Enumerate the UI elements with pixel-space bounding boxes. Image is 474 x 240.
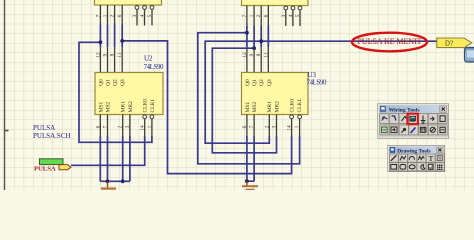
wire net QC3 to MR1 and PULSA KE MENIT port <box>205 41 437 143</box>
svg-text:2: 2 <box>256 14 262 17</box>
wire net QB3 to MR2 <box>212 48 276 153</box>
svg-text:12: 12 <box>242 52 248 58</box>
svg-text:11: 11 <box>263 52 269 57</box>
svg-text:MS2: MS2 <box>106 102 112 113</box>
wire U2 output verticals <box>100 25 122 48</box>
svg-text:MS2: MS2 <box>252 102 258 113</box>
U4 pins <box>247 6 300 27</box>
svg-text:8: 8 <box>110 53 116 56</box>
drawing glyphs row1 <box>391 154 443 163</box>
svg-text:2: 2 <box>118 125 124 128</box>
svg-text:74LS90: 74LS90 <box>144 63 165 71</box>
svg-text:5: 5 <box>147 14 153 17</box>
svg-text:4: 4 <box>140 14 146 17</box>
junction U2-QA tap <box>99 40 103 44</box>
U3 CLK bubbles <box>290 115 302 119</box>
red highlight on net label tool <box>407 114 417 124</box>
svg-text:3: 3 <box>125 125 131 128</box>
junction U3-QC tap / PULSA KE MENIT net <box>259 39 263 43</box>
svg-text:3: 3 <box>132 14 138 17</box>
svg-text:2: 2 <box>110 14 116 17</box>
sheet entry D <box>59 165 71 170</box>
svg-text:8: 8 <box>256 53 262 56</box>
svg-text:Q1: Q1 <box>106 79 112 86</box>
svg-text:7: 7 <box>95 14 101 17</box>
title bar <box>389 147 443 154</box>
U4 inverted pin bubbles <box>284 6 302 10</box>
svg-text:6: 6 <box>95 125 101 128</box>
U3 bottom pin numbers <box>242 125 300 131</box>
U3 pin names <box>245 79 303 112</box>
svg-text:7: 7 <box>103 125 109 128</box>
svg-text:Q0: Q0 <box>98 79 104 86</box>
wiring buttons row1 <box>0 0 1 1</box>
junction U2-QD cascade tap <box>120 39 124 43</box>
junction U2 ground bus MS2 <box>106 179 110 183</box>
svg-text:MS1: MS1 <box>245 102 251 113</box>
svg-text:11: 11 <box>117 52 123 57</box>
button frames row1 <box>380 114 447 124</box>
button frames row2 <box>380 125 447 135</box>
wire U3 ground <box>247 136 254 181</box>
IC U4 74LS47 digit driver 2 (cut off at top) <box>242 0 309 6</box>
svg-text:3: 3 <box>272 125 278 128</box>
svg-text:6: 6 <box>117 14 123 17</box>
svg-text:Wiring Tools: Wiring Tools <box>389 107 421 113</box>
title bar <box>380 105 448 112</box>
svg-text:Q2: Q2 <box>113 79 119 86</box>
port D? (net PULSA KE MENIT) <box>437 38 472 48</box>
svg-text:MS1: MS1 <box>98 102 104 113</box>
U3 top pin numbers <box>242 52 269 58</box>
svg-text:5: 5 <box>295 14 301 17</box>
svg-text:T: T <box>429 154 434 163</box>
ground GND2 (power bar) <box>242 181 258 189</box>
sheet symbol PULSA <box>40 159 64 165</box>
wire U3 output verticals <box>247 26 268 48</box>
op U2 top pins <box>100 47 122 72</box>
U4 pin numbers <box>242 14 301 17</box>
sheet border <box>4 0 6 190</box>
svg-text:14: 14 <box>287 125 293 131</box>
junction U2 ground bus MR1 <box>121 179 125 183</box>
svg-text:1: 1 <box>249 14 255 17</box>
svg-text:MR1: MR1 <box>267 101 273 112</box>
svg-text:14: 14 <box>140 125 146 131</box>
svg-text:CLK1: CLK1 <box>150 99 156 113</box>
IC U3 74LS90 body <box>242 73 309 115</box>
ground GND1 (power bar) <box>101 181 116 188</box>
svg-text:2: 2 <box>264 125 270 128</box>
svg-text:4: 4 <box>288 14 294 17</box>
IC U2 74LS90 body <box>95 73 163 115</box>
U3 bottom pins <box>247 115 300 137</box>
U1 pins <box>100 5 152 26</box>
wire net QA1 tap: U2 QA to U2 CLK1 <box>71 25 437 182</box>
wire U2 ground bus <box>100 136 130 181</box>
glyphs row2 <box>382 127 446 133</box>
svg-text:Q0: Q0 <box>245 79 251 86</box>
close button <box>440 106 447 112</box>
svg-text:7: 7 <box>242 14 248 17</box>
svg-text:12: 12 <box>95 52 101 58</box>
wire net QD1 cascade: U2 QD to U3 CLK0 <box>122 41 291 174</box>
wire net QA3 tap: U3 QA to U3 CLK1 <box>198 33 300 164</box>
U1 inverted pin bubbles <box>135 6 154 10</box>
U2 top pin numbers <box>95 52 123 58</box>
svg-text:74LS90: 74LS90 <box>307 79 328 87</box>
svg-text:6: 6 <box>242 125 248 128</box>
op U3 top pins <box>247 47 268 72</box>
svg-text:Q3: Q3 <box>120 79 126 86</box>
U1 pin numbers <box>95 14 153 17</box>
svg-text:Drawing Tools: Drawing Tools <box>397 148 430 154</box>
mini window corner bottom right of port <box>465 48 474 63</box>
U2 CLK bubbles <box>143 115 154 119</box>
svg-text:MR1: MR1 <box>121 101 127 112</box>
junction U3-QA tap <box>245 31 249 35</box>
svg-text:1: 1 <box>294 125 300 128</box>
svg-text:CLK0: CLK0 <box>143 99 149 113</box>
U2 bottom pin numbers <box>95 125 153 131</box>
svg-text:1: 1 <box>147 125 153 128</box>
svg-text:PULSA: PULSA <box>33 124 55 132</box>
svg-text:9: 9 <box>249 53 255 56</box>
junction U3-QB tap <box>252 46 256 50</box>
U2 bottom pins <box>100 115 152 137</box>
svg-text:3: 3 <box>281 14 287 17</box>
svg-text:MR2: MR2 <box>128 101 134 112</box>
svg-text:1: 1 <box>103 14 109 17</box>
svg-text:Q3: Q3 <box>267 79 273 86</box>
svg-text:PULSA.SCH: PULSA.SCH <box>33 132 71 140</box>
svg-text:D?: D? <box>445 39 453 47</box>
drawing glyphs row2 <box>391 164 443 170</box>
annotation ellipse around net name PULSA KE MENIT <box>352 33 427 52</box>
svg-text:Q1: Q1 <box>252 79 258 86</box>
wire CLK0 feed from sheet entry <box>71 136 145 165</box>
svg-text:CLK1: CLK1 <box>297 99 303 113</box>
svg-text:9: 9 <box>103 53 109 56</box>
svg-text:MR2: MR2 <box>274 101 280 112</box>
U2 pin names <box>98 79 156 112</box>
svg-text:6: 6 <box>263 14 269 17</box>
svg-text:PULSA KE MENIT: PULSA KE MENIT <box>358 37 422 46</box>
junction U3 ground <box>245 179 249 183</box>
glyphs row1 <box>382 116 446 124</box>
svg-text:U2: U2 <box>144 55 153 63</box>
svg-text:7: 7 <box>249 125 255 128</box>
IC U1 74LS47 digit driver 1 (cut off at top) <box>95 0 162 5</box>
svg-text:CLK0: CLK0 <box>290 99 296 113</box>
svg-text:PULSA: PULSA <box>34 165 56 172</box>
svg-text:Q2: Q2 <box>259 79 265 86</box>
drawing button frames <box>389 154 444 171</box>
